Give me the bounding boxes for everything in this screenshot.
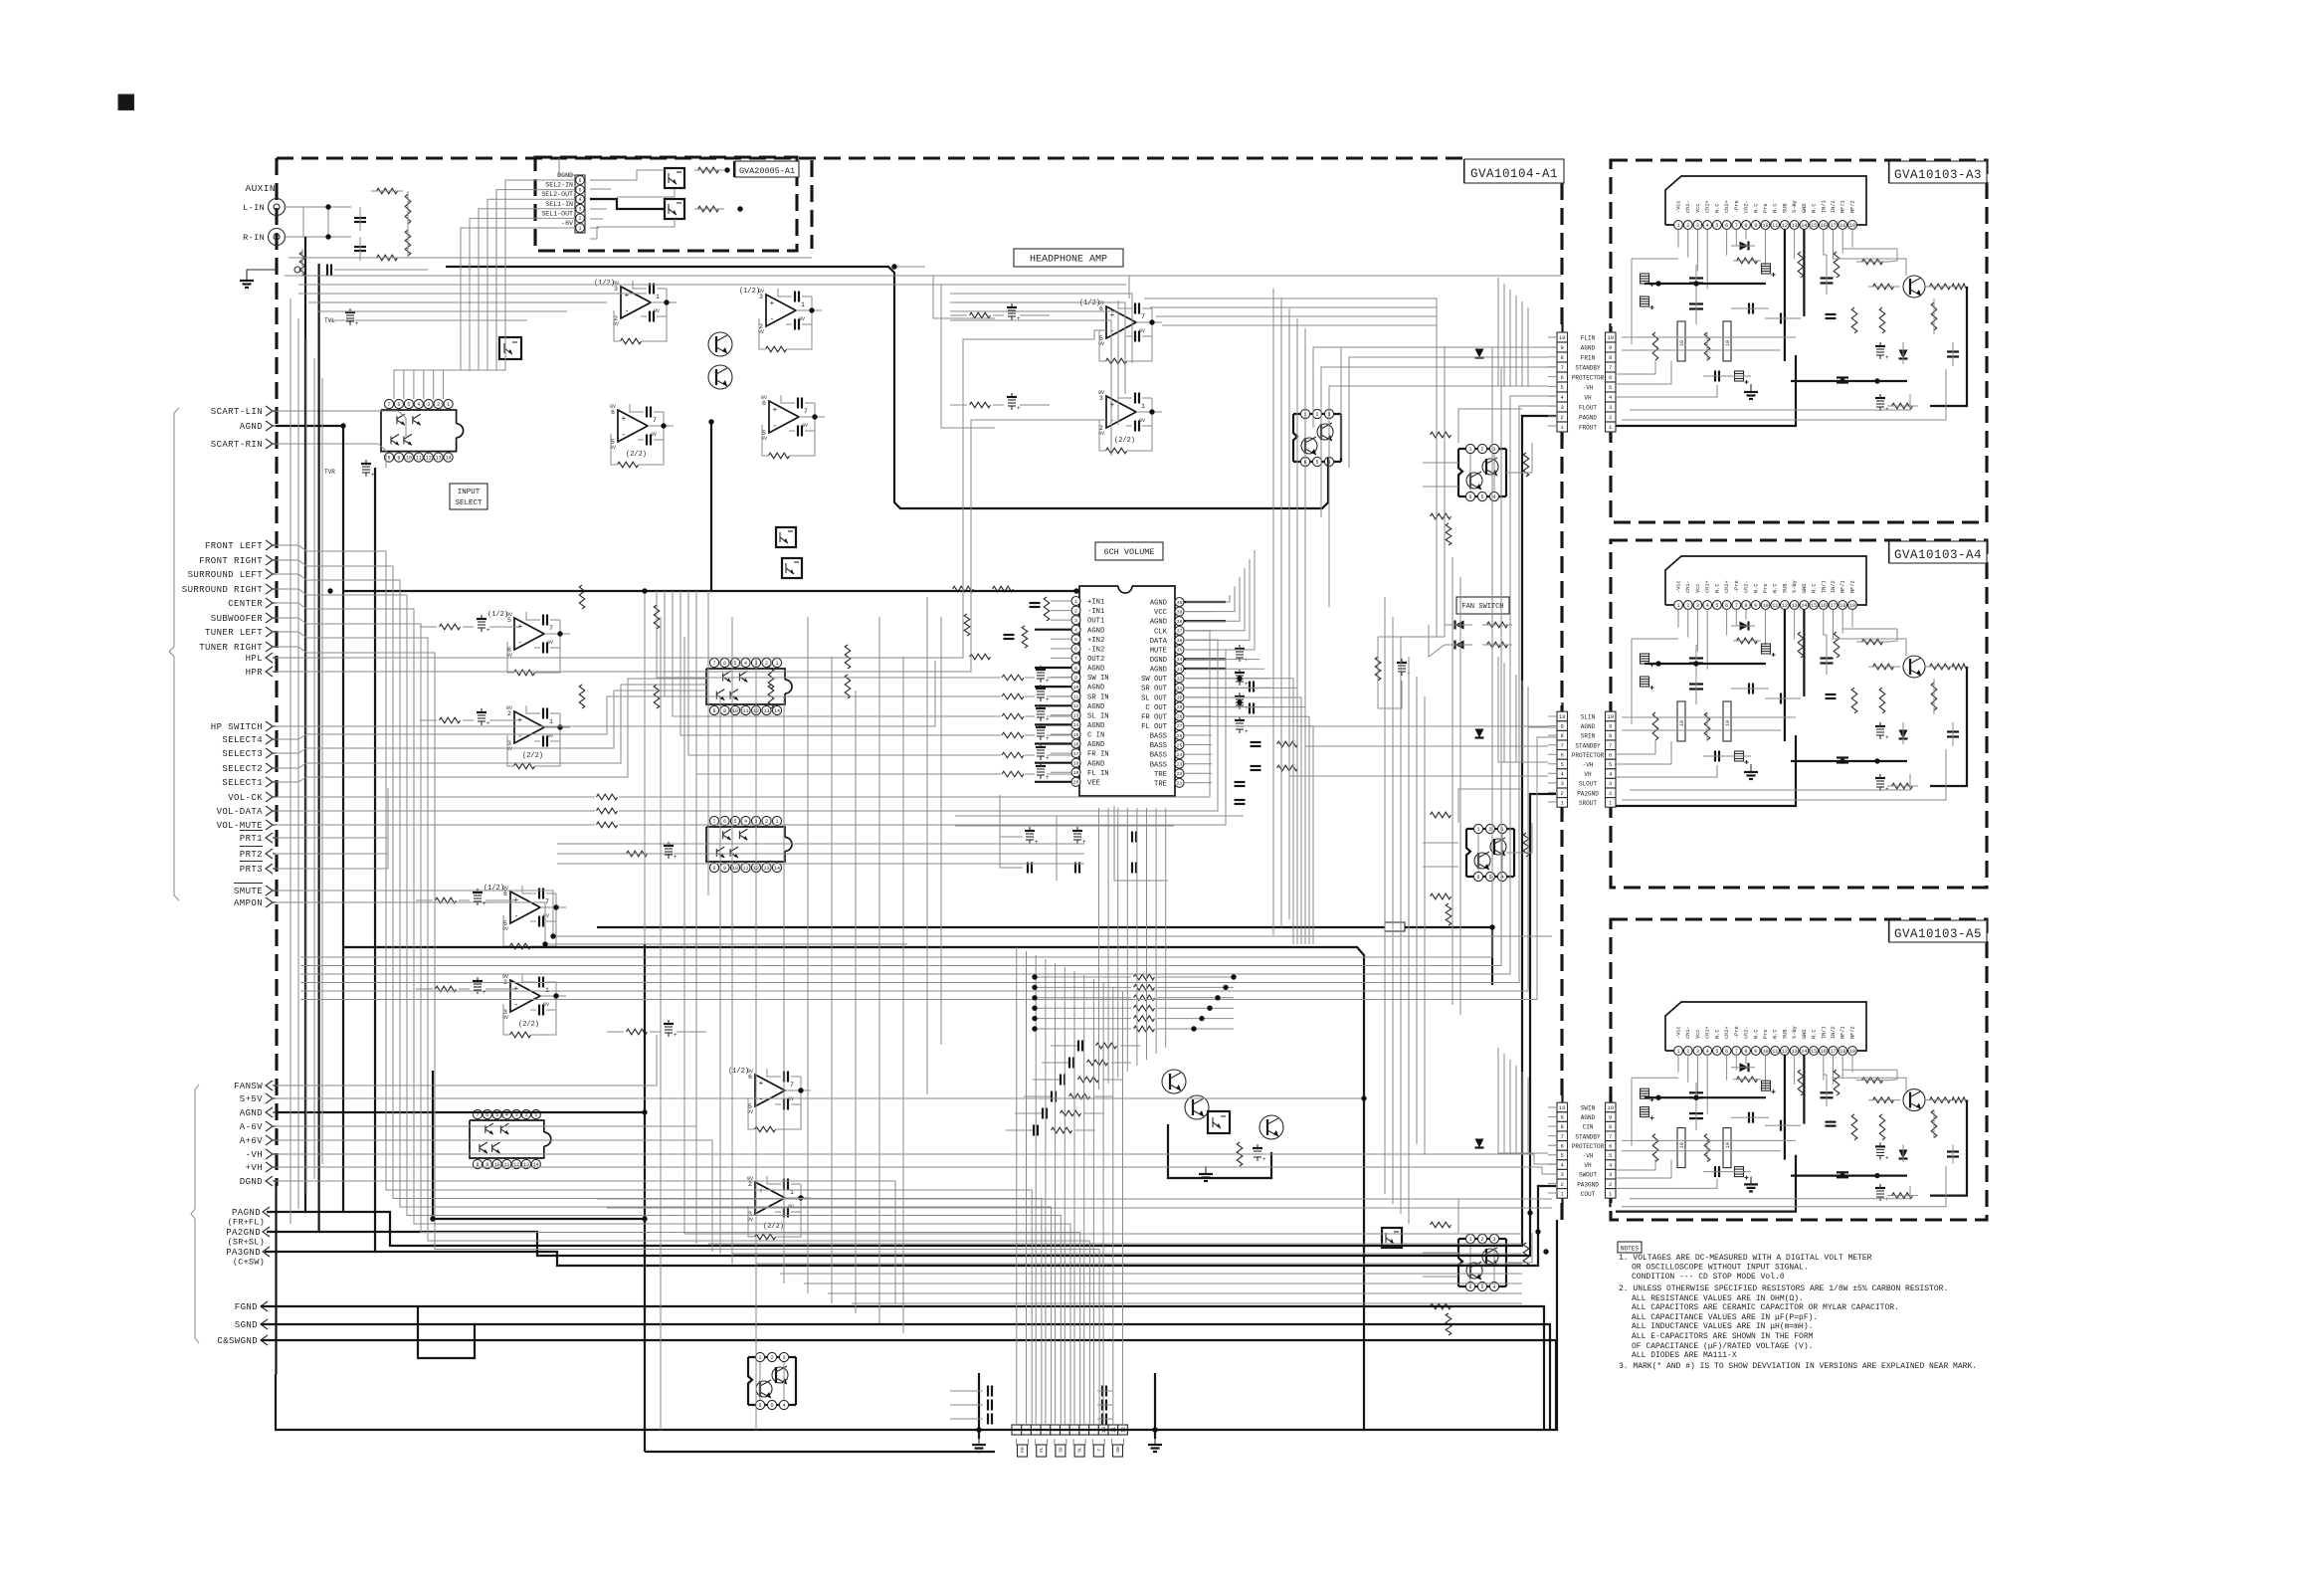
resistor A3-r2 [1652,332,1658,360]
svg-text:SEL2-IN: SEL2-IN [545,182,573,189]
diode D-A3 [1740,242,1749,251]
resistor R5 aux [299,252,305,276]
volume IC body [1079,586,1175,796]
svg-text:BASS: BASS [1150,733,1167,741]
svg-text:25: 25 [1177,742,1183,748]
svg-text:10: 10 [1559,334,1566,341]
emitter resistor A5-10b [1723,1128,1731,1168]
photocoupler PC1 [499,337,521,359]
svg-text:1: 1 [1676,603,1679,609]
resistor A4-r9 [1892,783,1913,789]
svg-text:SEL1-OUT: SEL1-OUT [541,210,573,217]
rail bus A4 [1645,663,1766,665]
svg-text:17: 17 [1830,1049,1836,1055]
cap A4-c7 [1947,730,1959,732]
svg-text:12: 12 [1073,703,1079,709]
opamp U7b [514,711,544,743]
resistor R52 [698,206,719,212]
svg-text:3: 3 [1561,404,1564,411]
svg-text:(2/2): (2/2) [1114,437,1135,445]
svg-text:VCC: VCC [1154,609,1168,617]
svg-text:10: 10 [1607,1104,1614,1111]
svg-text:AGND: AGND [1087,685,1104,692]
board label GVA10103-A3 [1888,161,1890,183]
svg-text:6: 6 [611,409,615,416]
photocoupler PC2 [776,527,796,547]
svg-text:3: 3 [759,294,763,300]
svg-text:FANSW: FANSW [234,1082,263,1091]
svg-text:2: 2 [1561,414,1564,421]
svg-text:12: 12 [426,455,432,461]
svg-text:6: 6 [1468,1284,1471,1290]
svg-text:-VH: -VH [1583,762,1594,769]
cap A5-c4 [1748,1112,1750,1123]
driver transistor A3 [1903,276,1925,297]
svg-text:C IN: C IN [1087,732,1104,740]
svg-text:7: 7 [1074,656,1077,662]
svg-text:GVA10103-A5: GVA10103-A5 [1894,927,1982,941]
svg-text:-IN2: -IN2 [1087,647,1104,655]
zener A5 [1899,1150,1908,1159]
svg-text:GND: GND [1802,203,1808,213]
svg-text:+: + [1245,681,1249,688]
bottom connector caps [987,1386,989,1397]
svg-text:S-By: S-By [1792,580,1798,593]
svg-text:DGND: DGND [240,1177,263,1187]
svg-text:1: 1 [1074,599,1077,605]
svg-text:29: 29 [1177,704,1183,710]
svg-text:8: 8 [1744,603,1747,609]
svg-text:3: 3 [1561,780,1564,787]
svg-text:-: - [773,422,778,431]
svg-text:(1/2): (1/2) [487,611,508,619]
wire right-side connector feeds [1423,866,1458,868]
svg-text:7: 7 [653,417,657,424]
cap A4-c5 [1780,693,1782,704]
svg-text:6: 6 [1468,494,1471,500]
volume left resistors [953,586,974,592]
cap A5-c8 [1837,1171,1848,1173]
svg-text:22: 22 [1177,771,1183,777]
svg-text:7: 7 [712,819,715,825]
svg-text:N.C: N.C [1753,203,1759,213]
svg-text:2. UNLESS OTHERWISE SPECIFIED: 2. UNLESS OTHERWISE SPECIFIED RESISTORS … [1619,1284,1948,1293]
svg-text:DGND: DGND [1150,657,1167,665]
svg-text:9: 9 [723,866,726,872]
svg-text:1: 1 [1468,447,1471,453]
svg-text:ch1+: ch1+ [1705,1026,1711,1039]
svg-text:2: 2 [765,819,768,825]
resistor A4-r2 [1652,712,1658,740]
cap A5-c6 [1821,1091,1834,1093]
svg-text:FROUT: FROUT [1579,425,1597,432]
svg-text:7: 7 [1735,1049,1738,1055]
svg-text:SL: SL [1077,1447,1083,1453]
driver transistor A4 [1903,656,1925,678]
svg-text:ch2-: ch2- [1744,580,1750,593]
svg-text:11: 11 [416,455,422,461]
svg-text:14: 14 [774,708,780,714]
trimmer A5-t1 [1876,1148,1884,1150]
svg-text:2: 2 [1561,1181,1564,1188]
svg-text:8: 8 [1561,1123,1564,1130]
svg-text:5: 5 [1715,603,1718,609]
svg-text:6: 6 [1609,1142,1612,1149]
svg-text:7: 7 [387,402,390,408]
connector CN-A4 SL/SR [1561,702,1563,711]
svg-text:11: 11 [1772,603,1778,609]
svg-text:17: 17 [1073,751,1079,757]
svg-text:-: - [1110,327,1115,336]
svg-text:-VH: -VH [1583,1153,1594,1160]
svg-text:+: + [759,1187,764,1196]
svg-text:FR IN: FR IN [1087,751,1109,759]
opamp U9b headphone [1106,396,1136,428]
svg-text:5: 5 [1715,223,1718,229]
selector IC U3 pins [709,816,718,825]
svg-text:AGND: AGND [1150,600,1167,608]
opamp U6b feedback RC [797,398,799,409]
svg-text:-Vcc: -Vcc [1676,1026,1682,1039]
thick output loop A5 [1930,1100,1967,1196]
svg-text:AGND: AGND [1581,345,1596,352]
svg-text:NF/2: NF/2 [1850,200,1856,213]
svg-text:6: 6 [723,819,726,825]
svg-text:SUB: SUB [1782,1029,1788,1039]
cap A3-c6 [1821,277,1834,279]
svg-text:1: 1 [578,226,581,232]
wire control signal bundle [644,591,646,944]
svg-text:+: + [1046,716,1050,723]
cap A4-c8 [1837,756,1848,758]
notes text block [1618,1242,1642,1253]
svg-text:+: + [773,406,778,415]
resistor network A4 [1798,632,1804,658]
svg-text:1: 1 [1141,403,1145,410]
board outline GVA20005-A1 [535,157,797,251]
svg-text:+: + [625,292,630,300]
ground symbol AUX input [246,273,248,281]
trimmer A5-t2 [1876,1190,1884,1192]
svg-text:+: + [1046,696,1050,703]
rail bus A3 [1645,283,1766,285]
svg-text:SCART-LIN: SCART-LIN [211,407,263,417]
svg-text:39: 39 [1177,609,1183,615]
svg-text:6: 6 [1725,223,1728,229]
svg-text:S-By: S-By [1792,1026,1798,1039]
cap C1 aux L [354,217,366,219]
svg-text:(1/2): (1/2) [728,1068,749,1076]
svg-text:7: 7 [790,1082,794,1088]
svg-text:SUB: SUB [1782,203,1788,213]
opamp U9a headphone feedback RC [1134,303,1136,314]
svg-text:SLOUT: SLOUT [1579,781,1597,788]
svg-text:+: + [1110,401,1115,410]
svg-text:7: 7 [1735,603,1738,609]
resistor A3-r4 [1862,259,1883,265]
svg-text:2: 2 [1686,603,1689,609]
board outline GVA10104-A1 left edge [275,158,278,1186]
svg-text:N.C: N.C [1714,1029,1720,1039]
svg-text:5: 5 [1488,875,1491,881]
svg-text:+: + [1885,734,1889,741]
svg-text:SURROUND LEFT: SURROUND LEFT [188,570,264,580]
svg-text:35: 35 [1177,648,1183,654]
thick output loop A3 [1930,287,1967,406]
svg-text:NF/1: NF/1 [1840,200,1846,213]
svg-text:FRONT RIGHT: FRONT RIGHT [199,556,263,566]
wire mid distribution bundle [1157,1007,1234,1009]
opamp U5a [621,287,651,318]
svg-text:AUXIN: AUXIN [245,183,276,194]
svg-text:GVA20005-A1: GVA20005-A1 [739,166,795,176]
svg-text:1: 1 [1676,223,1679,229]
svg-text:5: 5 [1480,1284,1483,1290]
cap A5-c7 [1947,1150,1959,1152]
svg-text:ALL RESISTANCE VALUES ARE IN O: ALL RESISTANCE VALUES ARE IN OHM(Ω). [1632,1294,1804,1303]
driver bias resistors near y=1269 [1431,1222,1452,1228]
zener near y=1269 [1475,1139,1484,1148]
svg-text:6CH VOLUME: 6CH VOLUME [1103,547,1154,557]
svg-text:AGND: AGND [1087,722,1104,730]
opamp U5a feedback RC [649,284,651,295]
svg-text:3: 3 [503,1009,507,1016]
svg-text:7: 7 [1561,742,1564,749]
svg-text:10: 10 [1762,603,1768,609]
opamp U6a [766,295,796,326]
supply caps A4 [1689,657,1703,659]
driver bias resistors near y=857 [1431,812,1452,818]
svg-text:Vcc: Vcc [1695,583,1701,593]
svg-text:Pre: Pre [1763,583,1769,593]
svg-text:+: + [1035,839,1039,846]
svg-text:14: 14 [1801,603,1807,609]
driver package Q-A5 wiring [1469,1244,1471,1282]
resistor A5-r4 [1862,1078,1883,1084]
svg-text:15: 15 [1811,1049,1817,1055]
svg-text:ch2-: ch2- [1744,1026,1750,1039]
svg-text:SLIN: SLIN [1581,714,1596,721]
svg-text:VH: VH [1584,1162,1592,1169]
fan trimmer [1398,665,1406,667]
resistor A3-r8 [1931,302,1937,330]
resistor A3-r5 [1873,284,1894,290]
rail bus A5 [1645,1096,1766,1098]
opamp U10b [755,1182,785,1214]
svg-text:8: 8 [1609,1123,1612,1130]
svg-text:STANDBY: STANDBY [1575,365,1601,372]
block ground A4 [1750,764,1752,772]
svg-text:CLK: CLK [1154,628,1168,636]
speaker tags [1017,1439,1029,1445]
input caps A3 [1714,371,1716,382]
svg-text:3: 3 [1492,447,1495,453]
svg-text:11: 11 [742,708,748,714]
svg-text:1: 1 [1476,827,1479,833]
svg-text:13: 13 [763,708,769,714]
svg-text:ALL DIODES ARE MA111-X: ALL DIODES ARE MA111-X [1632,1351,1737,1360]
svg-text:-VH: -VH [1583,385,1594,392]
junction dots [1032,974,1037,979]
driver package Q-HP pins [1300,409,1309,418]
svg-text:DATA: DATA [1150,638,1168,646]
svg-text:IN/2: IN/2 [1831,1026,1837,1039]
resistor network A5 [1798,1070,1804,1095]
svg-text:33: 33 [1177,667,1183,673]
block ground A3 [1750,384,1752,392]
svg-text:AGND: AGND [1087,627,1104,635]
svg-text:1: 1 [775,819,778,825]
selector IC U3 body [706,827,785,862]
svg-text:7: 7 [1609,364,1612,371]
svg-text:SEL2-OUT: SEL2-OUT [541,191,573,198]
svg-text:SW IN: SW IN [1087,675,1109,683]
resistor R4 aux [405,230,411,256]
resistor R3 aux [405,194,411,224]
svg-text:3: 3 [1609,1171,1612,1178]
resistor A4-r3 [1704,712,1710,740]
fan diode D10 [1455,621,1464,630]
svg-text:7: 7 [712,661,715,667]
svg-text:2: 2 [1488,827,1491,833]
volume bottom caps [1026,833,1034,835]
svg-text:SURROUND RIGHT: SURROUND RIGHT [182,585,263,595]
ecap TVR [362,466,370,468]
svg-text:N.C: N.C [1812,583,1818,593]
driver package Q-A4 outline [1466,829,1470,877]
svg-text:AGND: AGND [1150,667,1167,675]
svg-text:SUBWOOFER: SUBWOOFER [211,614,263,624]
thick output loop A4 [1930,667,1967,786]
svg-text:6: 6 [1476,875,1479,881]
svg-text:13: 13 [1792,223,1798,229]
svg-text:13: 13 [763,866,769,872]
svg-text:2: 2 [1609,1181,1612,1188]
svg-text:21: 21 [1177,781,1183,787]
svg-text:SELECT: SELECT [455,499,483,507]
svg-text:19: 19 [1849,603,1855,609]
svg-text:Vcc: Vcc [1695,203,1701,213]
power IC A3 pin stubs [1677,230,1679,248]
svg-text:2: 2 [578,216,581,222]
photocoupler PC5 [1382,1228,1402,1248]
wire thick supply and ground buses [446,267,1328,508]
svg-text:11: 11 [742,866,748,872]
svg-text:PA3GND: PA3GND [1577,1181,1599,1188]
svg-text:3. MARK(* AND #) IS TO SHOW DE: 3. MARK(* AND #) IS TO SHOW DEVVIATION I… [1619,1362,1977,1371]
board outline GVA10103-A3 [1611,160,1987,522]
svg-text:12: 12 [1782,603,1788,609]
input caps A5 [1714,1166,1716,1177]
volume control line resistors [597,794,618,800]
svg-text:+VH: +VH [246,1163,263,1173]
svg-text:-: - [625,307,630,316]
svg-text:AGND: AGND [1087,666,1104,674]
block wiring A3 [1622,336,1796,338]
svg-text:-: - [759,1095,764,1104]
svg-text:INPUT: INPUT [458,489,481,496]
svg-text:10: 10 [1762,223,1768,229]
svg-text:+: + [1885,1196,1889,1203]
svg-text:-: - [514,1001,519,1010]
svg-text:CONDITION --- CD STOP MODE V: CONDITION --- CD STOP MODE Vol.0 [1632,1273,1785,1282]
transistor Q3 [1162,1070,1186,1093]
svg-text:10: 10 [1725,1142,1731,1148]
label FAN SWITCH [1456,597,1509,614]
svg-text:HP SWITCH: HP SWITCH [211,722,263,732]
block ground A5 [1750,1176,1752,1184]
zener A4 [1899,730,1908,739]
diode D-A5 [1740,1063,1749,1072]
svg-text:ALL CAPACITORS ARE CERAMIC CAP: ALL CAPACITORS ARE CERAMIC CAPACITOR OR … [1632,1303,1899,1312]
svg-text:11: 11 [1772,223,1778,229]
svg-text:PROTECTOR: PROTECTOR [1572,1143,1605,1150]
input caps A4 [1714,751,1716,762]
driver package Q-MUTE wiring [759,1362,761,1400]
svg-text:2: 2 [1099,425,1103,432]
resistor A5-r2 [1652,1134,1658,1162]
bus A5 mid [1791,1174,1907,1176]
driver package Q-A3 transistors [1482,459,1498,475]
svg-text:SL OUT: SL OUT [1141,694,1168,702]
selector IC U3 internals [722,831,724,839]
svg-text:6: 6 [758,1403,761,1409]
svg-text:STANDBY: STANDBY [1575,1133,1601,1140]
board label GVA10104-A1 [1463,159,1465,183]
svg-text:AGND: AGND [1581,723,1596,730]
power IC A3 body [1665,176,1866,225]
svg-text:10: 10 [1679,340,1685,346]
svg-text:4: 4 [744,661,747,667]
opamp U8b feedback RC [538,977,540,988]
wire input fan bundle [285,275,1562,277]
svg-text:AGND: AGND [1087,741,1104,749]
svg-text:37: 37 [1177,629,1183,635]
svg-text:6: 6 [748,1074,752,1081]
svg-text:SWOUT: SWOUT [1579,1172,1597,1179]
driver package Q-A4 wiring [1477,834,1479,872]
svg-text:N.C: N.C [1753,1029,1759,1039]
svg-text:2: 2 [1686,223,1689,229]
svg-text:(FR+FL): (FR+FL) [228,1218,266,1228]
resistor A3-r6 [1930,284,1951,290]
svg-text:+: + [1245,704,1249,711]
svg-text:3: 3 [1561,1171,1564,1178]
svg-text:SRIN: SRIN [1581,733,1596,740]
svg-text:FL OUT: FL OUT [1141,723,1168,731]
svg-text:BASS: BASS [1150,752,1167,760]
svg-text:AGND: AGND [1087,760,1104,768]
svg-text:IN/1: IN/1 [1821,200,1827,213]
selector IC U1 internals [396,416,398,424]
svg-text:6: 6 [1561,1142,1564,1149]
svg-text:2: 2 [1609,414,1612,421]
svg-text:ALL CAPACITANCE VALUES ARE IN: ALL CAPACITANCE VALUES ARE IN μF(P=pF). [1632,1313,1818,1322]
driver package Q-MUTE transistors [772,1367,788,1383]
svg-text:23: 23 [1177,762,1183,768]
ecap bank A4 [1641,654,1649,664]
svg-text:5: 5 [762,430,766,437]
svg-text:N.C: N.C [1714,203,1720,213]
svg-text:6: 6 [578,178,581,184]
svg-text:6: 6 [1561,374,1564,381]
svg-text:7: 7 [1561,364,1564,371]
svg-text:GVA10103-A4: GVA10103-A4 [1894,548,1982,562]
svg-text:VEE: VEE [1087,779,1100,787]
diode D-A4 [1740,622,1749,631]
svg-text:32: 32 [1177,676,1183,682]
label INPUT SELECT [450,484,487,509]
